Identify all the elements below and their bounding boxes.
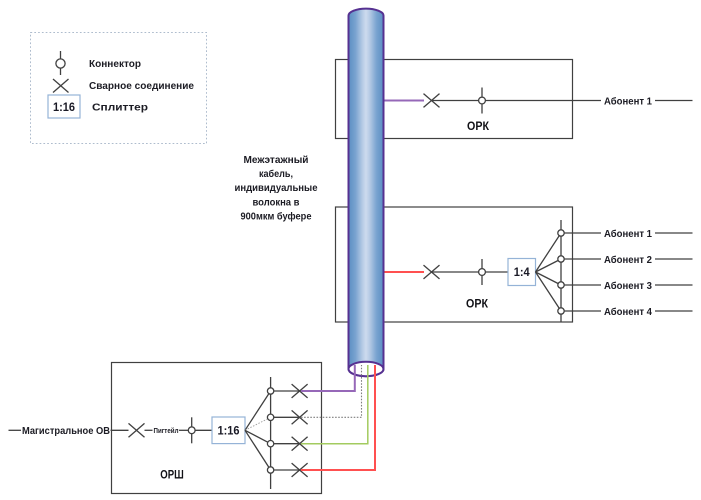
- connector middle floor input: [479, 259, 486, 285]
- connector top floor: [479, 88, 486, 114]
- legend box: [31, 33, 207, 144]
- splice X top floor: [424, 94, 440, 108]
- connector column middle floor: [560, 220, 562, 322]
- svg-text:ОРШ: ОРШ: [160, 467, 184, 481]
- svg-text:кабель,: кабель,: [259, 168, 293, 180]
- wire to pigtail splice: [111, 429, 129, 431]
- svg-text:Сварное соединение: Сварное соединение: [89, 80, 194, 92]
- splice X riser 4: [292, 463, 308, 477]
- fiber purple to top floor: [385, 100, 425, 102]
- svg-text:индивидуальные: индивидуальные: [235, 182, 318, 194]
- svg-text:Абонент 3: Абонент 3: [604, 280, 652, 292]
- legend splice symbol: [53, 79, 69, 93]
- wire trunk fiber input: [9, 429, 22, 431]
- box ОРШ: [112, 363, 322, 494]
- svg-text:1:4: 1:4: [514, 265, 530, 279]
- svg-text:1:16: 1:16: [53, 100, 75, 114]
- splice X middle floor: [424, 265, 440, 279]
- wire from splice to splitter middle floor: [432, 271, 509, 273]
- fiber red from ОРШ: [301, 365, 375, 470]
- fiber gray spare from ОРШ: [301, 365, 362, 417]
- svg-text:900мкм буфере: 900мкм буфере: [241, 211, 312, 223]
- svg-text:Абонент 2: Абонент 2: [604, 254, 652, 266]
- svg-text:Коннектор: Коннектор: [89, 58, 141, 70]
- fiber purple from ОРШ: [301, 365, 355, 391]
- svg-text:Абонент 1: Абонент 1: [604, 95, 652, 107]
- svg-text:Межэтажный: Межэтажный: [244, 154, 309, 166]
- wire after label top floor: [655, 100, 693, 102]
- svg-text:Абонент 4: Абонент 4: [604, 306, 652, 318]
- box OPK top floor: [336, 60, 573, 139]
- box OPK middle floor: [336, 207, 573, 322]
- fiber green from ОРШ: [301, 365, 368, 444]
- splitter 1:16: [212, 417, 245, 444]
- svg-text:Абонент 1: Абонент 1: [604, 228, 652, 240]
- wire pigtail right: [179, 429, 189, 431]
- svg-text:1:16: 1:16: [218, 423, 240, 437]
- labels Абонент 1-4 middle floor: [604, 228, 652, 318]
- legend splitter symbol 1:16: [48, 95, 80, 118]
- svg-text:Пигтейл: Пигтейл: [154, 427, 179, 435]
- connectors ОРШ outputs: [267, 388, 273, 473]
- svg-text:Сплиттер: Сплиттер: [92, 102, 148, 114]
- splice X riser 2: [292, 410, 308, 424]
- riser cable label text: [235, 154, 318, 223]
- svg-text:Магистральное ОВ: Магистральное ОВ: [22, 425, 110, 437]
- connector column ОРШ: [270, 377, 272, 489]
- svg-text:волокна в: волокна в: [253, 196, 300, 208]
- svg-text:ОРК: ОРК: [466, 297, 489, 311]
- splitter 1:4: [508, 259, 536, 286]
- riser cable: [349, 9, 384, 377]
- fan wires splitter 1:4 outputs: [536, 233, 562, 311]
- splice X riser 1: [292, 384, 308, 398]
- splice X pigtail: [129, 423, 145, 437]
- splice X riser 3: [292, 437, 308, 451]
- wire pigtail left: [145, 429, 153, 431]
- connectors middle floor outputs: [558, 230, 564, 314]
- svg-text:ОРК: ОРК: [467, 119, 490, 133]
- connector ОРШ input: [188, 417, 195, 443]
- wires connectors to splices ОРШ: [271, 391, 300, 470]
- subscriber wires middle floor: [561, 233, 693, 311]
- fan wires splitter 1:16 outputs: [245, 391, 271, 470]
- fiber red to middle floor: [385, 271, 425, 273]
- wire from splice to subscriber 1 top floor: [432, 100, 602, 102]
- wire connector to splitter 1:16: [195, 429, 212, 431]
- legend connector symbol: [56, 51, 65, 75]
